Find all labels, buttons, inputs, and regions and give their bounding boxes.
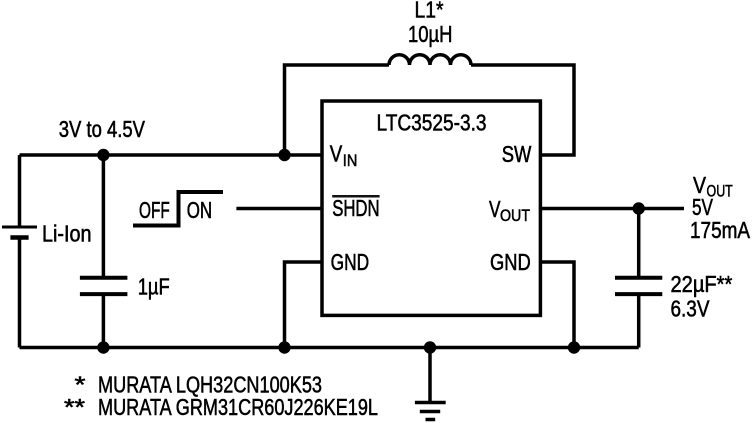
wire 1uF cap bottom lead: [102, 296, 106, 348]
op-amp U1 LTC3525-3.3 box: [322, 101, 540, 315]
on-off step waveform symbol: [133, 192, 223, 226]
svg-text:175mA: 175mA: [690, 217, 751, 243]
wire VOUT output: [540, 207, 684, 211]
ground symbol: [415, 403, 446, 420]
svg-text:IN: IN: [343, 151, 358, 170]
wire bottom ground rail: [20, 346, 639, 350]
label VOUT output: [693, 172, 733, 201]
note MURATA GRM31CR60J226KE19L: [64, 394, 378, 420]
svg-text:LTC3525-3.3: LTC3525-3.3: [377, 110, 487, 136]
wire ground symbol lead: [428, 348, 432, 402]
svg-text:MURATA GRM31CR60J226KE19L: MURATA GRM31CR60J226KE19L: [98, 394, 378, 420]
wire 22uF cap bottom lead: [637, 296, 641, 348]
node GND-left rail junction: [278, 341, 290, 353]
wire battery bottom lead: [18, 240, 22, 348]
svg-text:ON: ON: [187, 197, 212, 223]
node VIN-L1 junction: [278, 149, 290, 161]
svg-text:GND: GND: [331, 249, 370, 275]
wire 22uF cap top lead: [637, 209, 641, 277]
node GND-right rail junction: [568, 341, 580, 353]
wire GND right pin to bottom rail: [540, 262, 574, 348]
svg-text:10µH: 10µH: [408, 21, 453, 47]
wire 1uF cap top lead: [102, 155, 106, 276]
node ground-symbol rail junction: [424, 341, 436, 353]
battery BT1 Li-Ion long plate: [2, 226, 37, 229]
svg-text:GND: GND: [490, 249, 531, 275]
svg-text:Li-Ion: Li-Ion: [42, 221, 92, 247]
wire VIN rail: [20, 153, 323, 157]
wire GND left pin to bottom rail: [285, 262, 323, 348]
node VIN-C1 junction: [97, 149, 109, 161]
svg-text:SHDN: SHDN: [332, 195, 379, 221]
svg-text:1µF: 1µF: [138, 274, 170, 300]
note MURATA LQH32CN100K53: [75, 372, 323, 398]
svg-text:**: **: [64, 394, 85, 420]
inductor L1: [389, 55, 471, 65]
svg-text:OFF: OFF: [139, 197, 170, 223]
node VOUT-C2 junction: [633, 202, 645, 214]
capacitor C1 1uF top plate: [80, 276, 128, 280]
pin label VOUT: [489, 196, 530, 225]
svg-text:L1*: L1*: [415, 0, 444, 23]
svg-text:V: V: [330, 141, 343, 167]
svg-text:22µF**: 22µF**: [671, 271, 733, 297]
capacitor C2 22uF bottom plate: [615, 292, 662, 296]
svg-text:SW: SW: [502, 141, 532, 167]
battery BT1 Li-Ion short plate: [10, 235, 28, 240]
svg-text:OUT: OUT: [500, 206, 530, 225]
pin label SHDN with overline: [332, 195, 379, 221]
wire SHDN input: [236, 207, 322, 211]
capacitor C1 1uF bottom plate: [80, 292, 128, 296]
wire top loop left (inductor input): [285, 65, 390, 155]
node C1-ground rail junction: [97, 341, 109, 353]
svg-text:3V to 4.5V: 3V to 4.5V: [59, 116, 146, 142]
capacitor C2 22uF top plate: [615, 276, 662, 280]
wire top loop right to SW pin: [471, 65, 574, 155]
svg-text:6.3V: 6.3V: [671, 295, 711, 321]
wire battery top lead: [18, 155, 22, 226]
pin label VIN: [330, 141, 358, 170]
